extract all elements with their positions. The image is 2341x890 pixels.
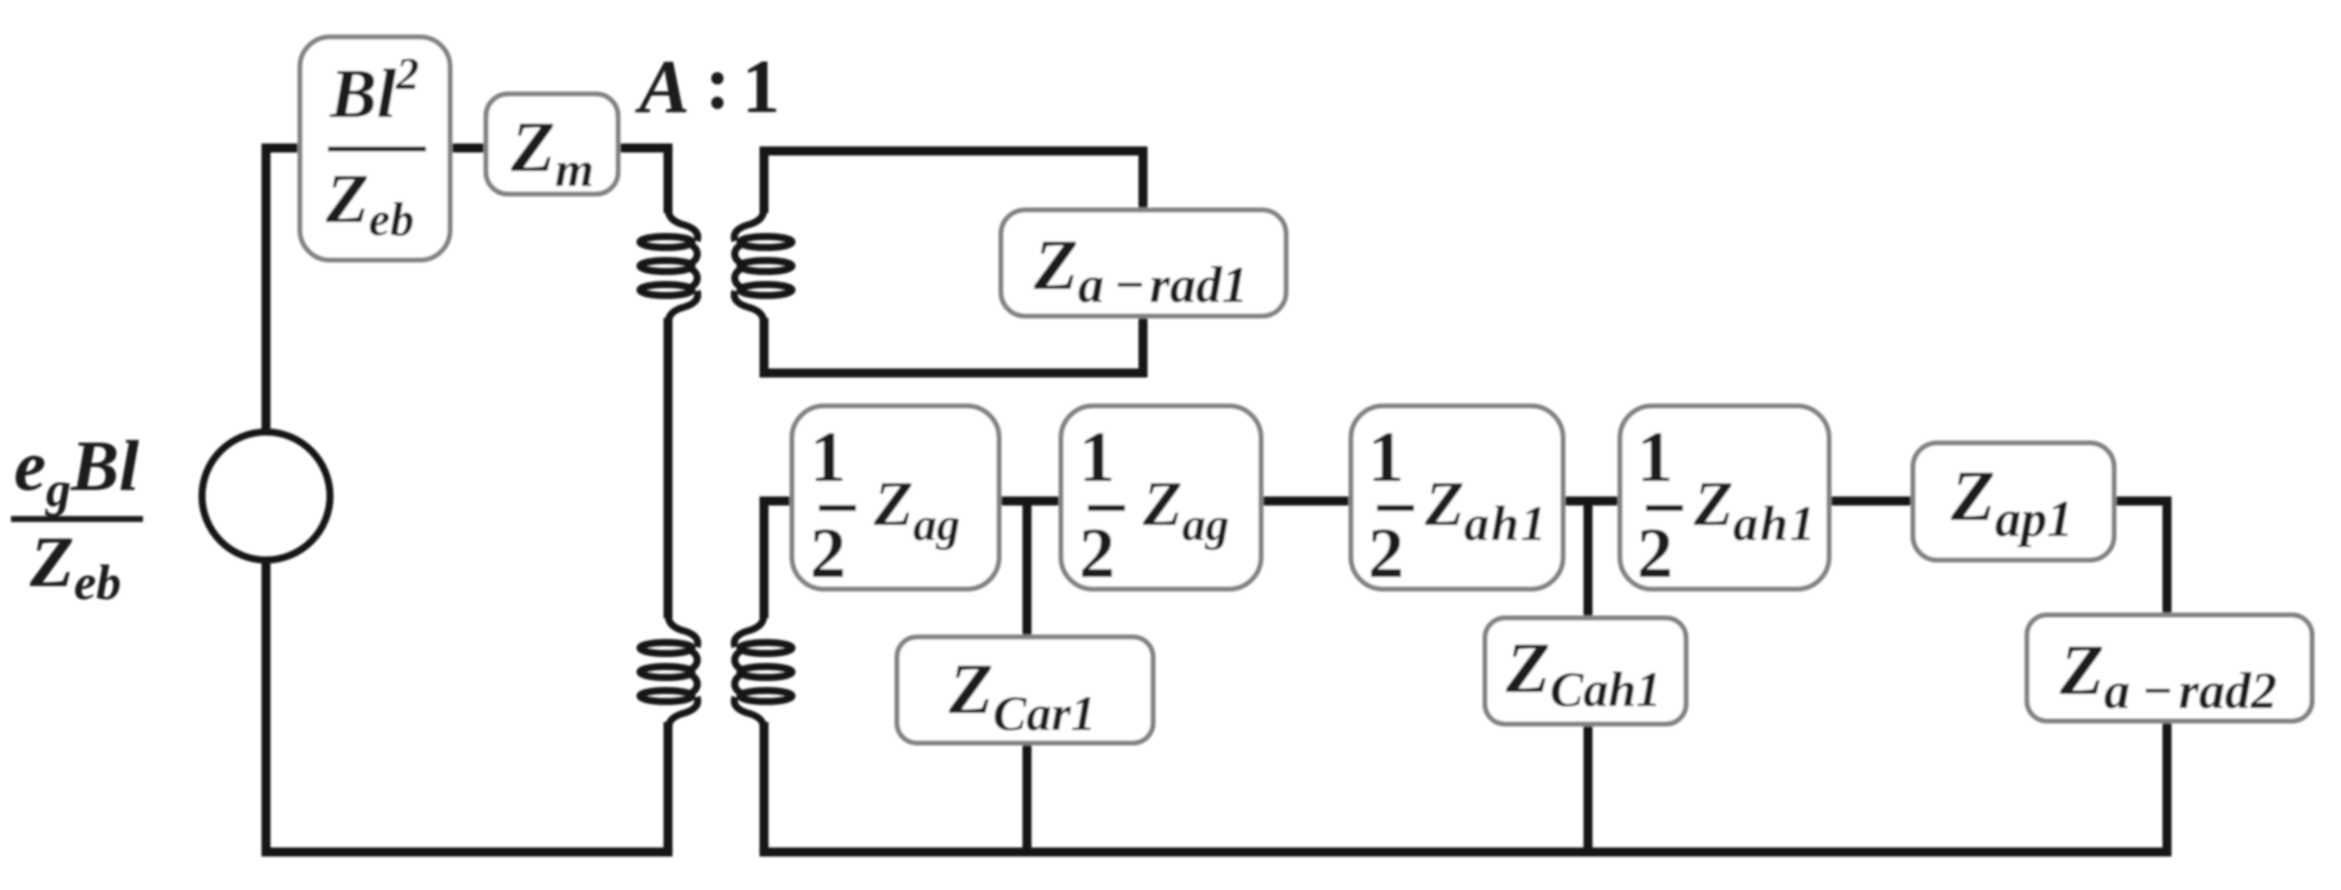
svg-text:2: 2 xyxy=(1079,513,1115,593)
svg-text::: : xyxy=(705,41,730,125)
svg-text:1: 1 xyxy=(1637,417,1673,497)
svg-text:1: 1 xyxy=(1368,417,1404,497)
svg-text:A: A xyxy=(635,45,690,129)
svg-text:2: 2 xyxy=(1368,513,1404,593)
svg-text:egBl: egBl xyxy=(14,426,139,517)
svg-text:2: 2 xyxy=(810,513,846,593)
svg-text:1: 1 xyxy=(1079,417,1115,497)
svg-text:1: 1 xyxy=(742,45,780,129)
svg-text:2: 2 xyxy=(1637,513,1673,593)
svg-text:1: 1 xyxy=(810,417,846,497)
